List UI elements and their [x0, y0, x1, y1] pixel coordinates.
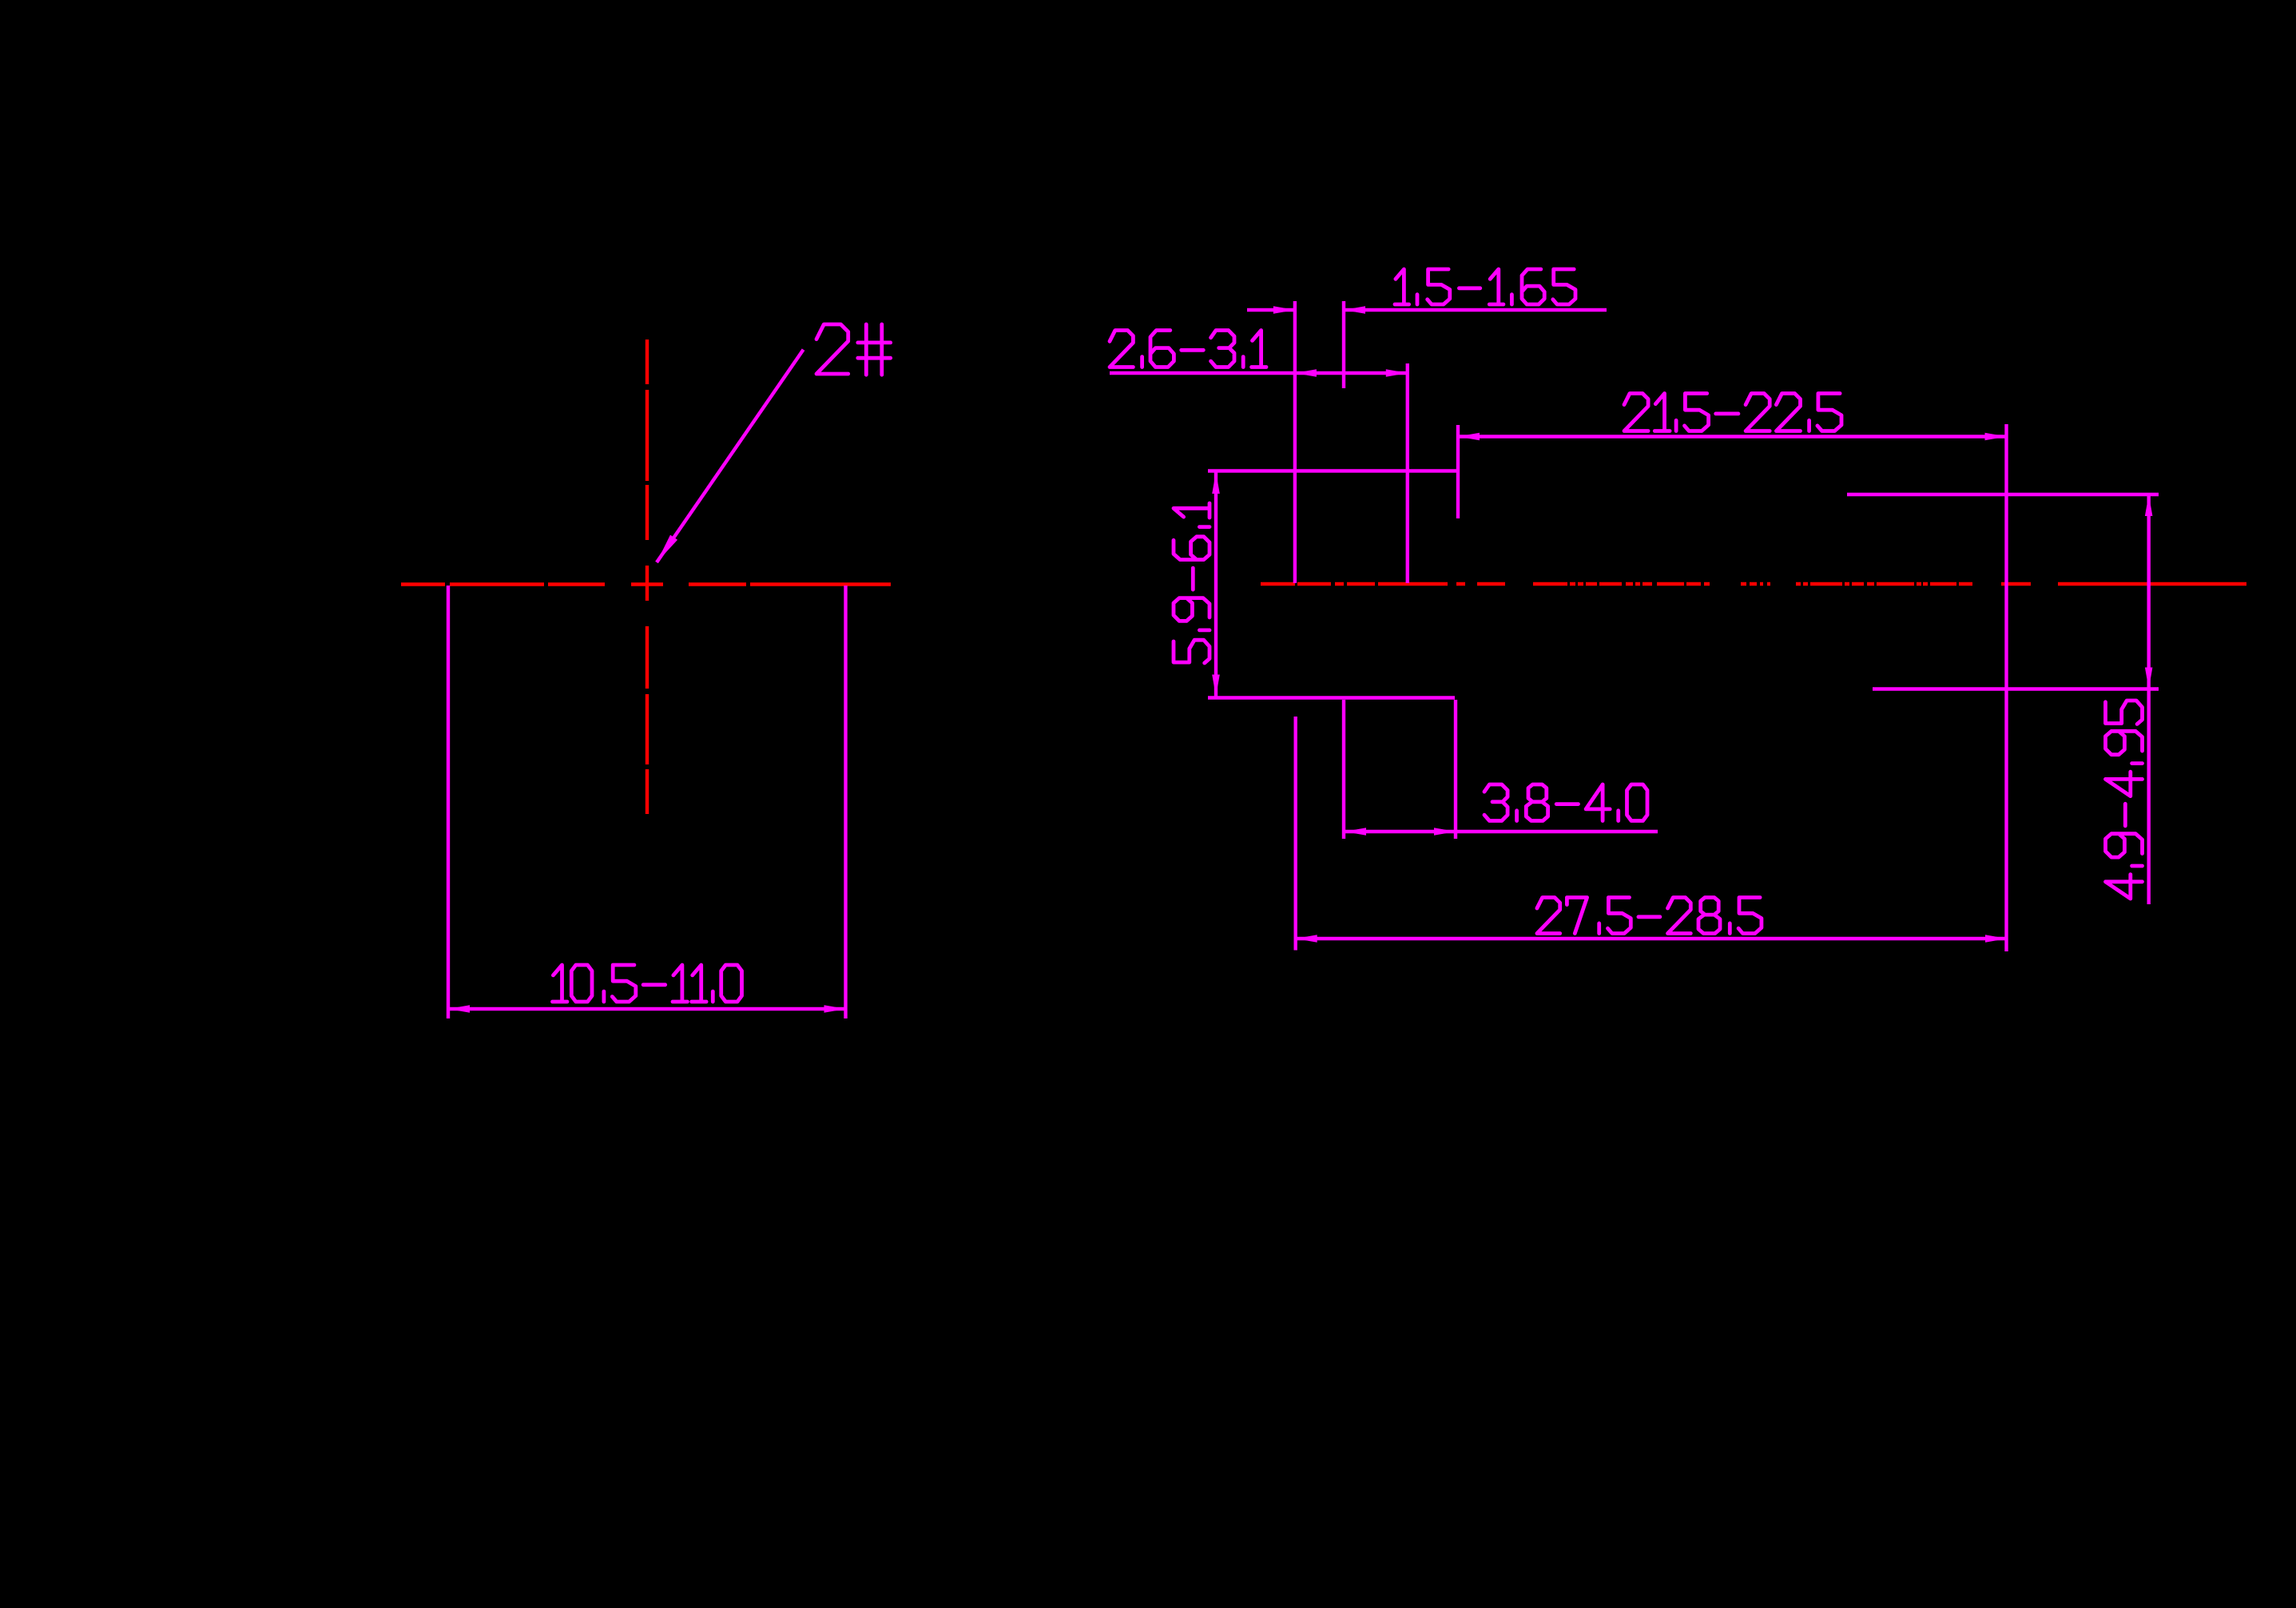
extension line bottom edge (5.9-6.1 bottom)	[1208, 696, 1455, 699]
extension line B (1.5-1.65 right)	[1342, 301, 1345, 388]
extension line C (2.6-3.1 right)	[1406, 363, 1409, 583]
extension line right (10.5-11.0)	[844, 586, 847, 1018]
dimension text 3.8-4.0	[1484, 784, 1647, 821]
extension line 3.8-4.0 left	[1342, 700, 1345, 839]
extension line A (part left edge, upper)	[1293, 301, 1297, 583]
extension line D (21.5-22.5 left)	[1456, 425, 1460, 518]
dimension line 5.9-6.1 (vertical)	[1214, 472, 1218, 697]
extension line 3.8-4.0 right	[1454, 700, 1457, 839]
dimension line 3.8-4.0	[1345, 830, 1658, 833]
extension line top edge (5.9-6.1 top)	[1208, 469, 1458, 472]
dimension text 27.5-28.5	[1537, 898, 1762, 934]
dimension line 10.5-11.0	[448, 1007, 846, 1010]
dimension line 2.6-3.1	[1110, 371, 1408, 375]
extension line E (right end)	[2004, 424, 2008, 951]
leader line to 2#	[657, 350, 804, 562]
dimension text 2.6-3.1	[1110, 331, 1266, 367]
dimension text 4.9-4.95 (rotated)	[2106, 701, 2143, 899]
extension line right-section top (4.9-4.95 top)	[1847, 493, 2159, 496]
extension line left (10.5-11.0)	[447, 586, 450, 1018]
dimension line 1.5-1.65	[1247, 308, 1295, 312]
dimension line 27.5-28.5	[1296, 937, 2007, 940]
dimension text 5.9-6.1 (rotated)	[1174, 503, 1210, 663]
label 2#	[816, 324, 891, 375]
leader arrowhead	[657, 535, 677, 562]
dimension line 21.5-22.5	[1458, 435, 2007, 438]
dimension text 1.5-1.65	[1395, 269, 1575, 304]
dimension text 10.5-11.0	[553, 965, 742, 1002]
centerline horizontal (left view, red dashed)	[401, 582, 891, 586]
extension line 27.5-28.5 left	[1293, 717, 1297, 951]
centerline (right view, red dash-dot)	[1261, 582, 2246, 586]
dimension text 21.5-22.5	[1624, 394, 1841, 431]
centerline vertical (left view, red dashed)	[646, 339, 649, 814]
dimension line 4.9-4.95 (vertical)	[2147, 494, 2150, 904]
extension line right-section bottom (4.9-4.95 bottom)	[1873, 687, 2159, 690]
